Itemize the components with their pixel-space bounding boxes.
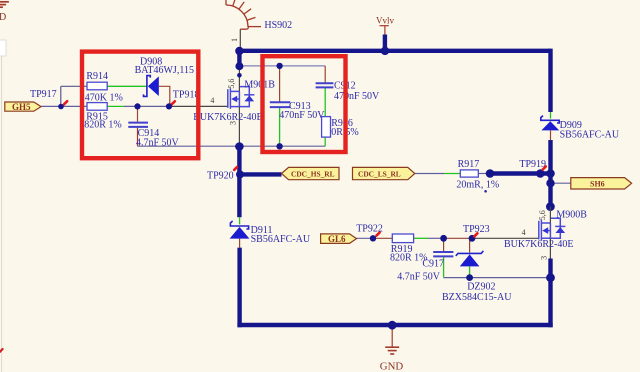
highlight box 2 [263, 56, 346, 152]
wire C917 bottom lead (green) [443, 257, 445, 278]
resistor R919 [392, 234, 413, 243]
net label GH5 [5, 102, 41, 112]
node junction C914 top [134, 103, 140, 109]
marker TP923 [474, 233, 477, 236]
svg-text:4.7nF 50V: 4.7nF 50V [397, 272, 441, 283]
net label CDC_HS_RL [282, 167, 340, 179]
wire GH5 to TP917 [41, 105, 61, 107]
capacitor C912 [316, 83, 334, 87]
svg-text:BUK7K6R2-40E: BUK7K6R2-40E [504, 239, 573, 250]
wire TP917 to R915 [61, 105, 87, 107]
svg-text:M901B: M901B [244, 80, 275, 91]
wire TP923 to gate M900B [472, 237, 539, 239]
resistor R917 [460, 170, 478, 177]
node junction SH6 [546, 179, 554, 187]
wire D911 anode lead [239, 239, 241, 248]
node junction low-side rail [546, 273, 555, 282]
wire R919 right (green) [414, 237, 428, 239]
wire D909 cathode lead (green) [550, 112, 552, 119]
svg-text:4: 4 [522, 228, 526, 237]
node junction snubber tap [235, 62, 243, 70]
svg-text:D: D [0, 12, 6, 23]
ground GND (top-left, clipped) [0, 2, 9, 7]
node junction DZ902 [466, 274, 473, 281]
wire TP919 row thick segment [490, 171, 551, 175]
highlight box 1 [82, 52, 198, 159]
svg-text:470K 1%: 470K 1% [85, 92, 123, 103]
svg-text:R914: R914 [86, 71, 108, 82]
marker TP917 [64, 101, 67, 104]
net label CDC_LS_RL [353, 167, 415, 179]
svg-text:HS902: HS902 [264, 20, 292, 31]
node junction C913 top [276, 63, 282, 69]
wire C913 top lead [279, 66, 281, 102]
wire M900B source lead [549, 238, 551, 258]
clipped red mark at left edge [0, 349, 3, 352]
wire left bus lower [237, 248, 241, 328]
resistor R915 [87, 103, 107, 111]
svg-text:TP919: TP919 [519, 159, 546, 170]
svg-text:C917: C917 [422, 259, 444, 270]
wire TP920 stub to CDC_HS_RL (thick) [239, 172, 281, 176]
wire DZ902 bottom lead (green) [469, 266, 471, 277]
node junction TP917 [58, 104, 64, 110]
node junction bus top-left [235, 47, 243, 55]
marker TP922 [377, 233, 380, 236]
wire C913 bottom lead (green) [279, 107, 281, 146]
wire TP918 to gate M901B [169, 105, 228, 107]
svg-text:TP917: TP917 [30, 89, 57, 100]
node junction C913 bottom [276, 143, 282, 149]
svg-text:TP918: TP918 [173, 90, 200, 101]
wire TP922 to R919 [373, 237, 392, 239]
wire D908 anode down to TP918 [159, 86, 170, 106]
heatsink HS902 [226, 0, 261, 29]
resistor R914 [87, 82, 107, 90]
wire M900B drain lead [549, 207, 551, 223]
wire Vvlv stub (thick) [383, 35, 387, 51]
wire HS902 pin lead [239, 29, 241, 49]
node junction C917 top [440, 235, 447, 242]
wire R915 right (green) [107, 105, 124, 107]
capacitor C917 [433, 252, 453, 256]
wire top bus Vvlv [237, 49, 550, 53]
wire TP917 to R914 [61, 85, 87, 87]
wire right bus lower [548, 259, 552, 328]
svg-text:470nF 50V: 470nF 50V [334, 91, 380, 102]
svg-text:4.7nF 50V: 4.7nF 50V [136, 137, 180, 148]
wire R916 bottom lead (green) [324, 137, 326, 146]
wire bottom rail bus to R916 [239, 145, 325, 147]
transistor M900B (NMOS) [539, 218, 566, 240]
node junction M901B drain [237, 73, 242, 78]
wire D911 cathode lead (green) [239, 217, 241, 224]
wire GND stub [391, 326, 393, 347]
wire to C917 node [428, 237, 444, 239]
diode D909 (Schottky) [541, 116, 559, 131]
svg-text:CDC_HS_RL: CDC_HS_RL [291, 169, 335, 178]
wire GL6 to TP922 [357, 237, 374, 239]
svg-text:5,6: 5,6 [538, 210, 547, 220]
net label SH6 [571, 178, 632, 189]
transistor M901B (NMOS) [228, 87, 255, 109]
wire C912 top lead [324, 66, 326, 83]
clipped white label at left edge [0, 40, 6, 56]
diode D911 (Schottky) [230, 221, 250, 239]
svg-text:DZ902: DZ902 [467, 281, 495, 292]
wire C912 to R916 (green) [324, 88, 326, 117]
wire right bus middle [548, 140, 552, 207]
svg-text:Vvlv: Vvlv [376, 15, 395, 25]
svg-text:SB56AFC-AU: SB56AFC-AU [560, 129, 620, 140]
node junction bus TP919 [546, 169, 555, 178]
diode D908 [144, 76, 159, 97]
zener diode DZ902 [456, 251, 484, 267]
wire SH6 stub [551, 182, 571, 184]
wire D909 anode lead [550, 130, 552, 140]
power Vvlv [380, 26, 389, 35]
wire R917 to junction [478, 173, 486, 175]
stray dot mark [484, 190, 487, 193]
wire R914 to D908 (green) [107, 85, 147, 87]
svg-text:R917: R917 [458, 159, 480, 170]
page border line [1, 56, 3, 372]
wire bottom rail C914 to bus [138, 145, 240, 147]
node junction TP920 [236, 170, 244, 178]
wire CDC_LS_RL to R917 [415, 173, 444, 175]
node junction GND [388, 321, 397, 330]
svg-text:GL6: GL6 [328, 234, 346, 244]
svg-text:BZX584C15-AU: BZX584C15-AU [442, 292, 512, 303]
svg-text:5,6: 5,6 [227, 79, 236, 89]
ground GND (bottom) [385, 347, 399, 354]
marker TP920 [234, 167, 237, 170]
svg-text:1: 1 [230, 38, 239, 42]
wire C917 node to TP923 [444, 237, 472, 239]
wire TP917 branch vertical [60, 86, 62, 106]
node junction Vvlv [381, 47, 389, 55]
svg-text:3: 3 [229, 121, 238, 125]
svg-text:470nF 50V: 470nF 50V [279, 110, 325, 121]
wire green into R917 [444, 173, 460, 175]
marker TP918 [172, 101, 175, 104]
svg-text:4: 4 [210, 96, 214, 105]
svg-text:CDC_LS_RL: CDC_LS_RL [358, 169, 401, 178]
wire low-side rail to bus [444, 277, 551, 279]
svg-text:BAT46WJ,115: BAT46WJ,115 [135, 65, 194, 76]
wire M901B source lead [238, 107, 240, 147]
svg-text:GND: GND [380, 360, 404, 372]
svg-text:3: 3 [539, 256, 548, 260]
svg-text:SB56AFC-AU: SB56AFC-AU [251, 234, 311, 245]
svg-text:M900B: M900B [556, 210, 587, 221]
wire left bus upper (thick) [237, 51, 241, 66]
wire DZ902 top lead [469, 238, 471, 252]
net label GL6 [321, 234, 357, 244]
capacitor C914 [128, 123, 148, 127]
wire C914 bottom lead [137, 128, 139, 146]
marker TP919 [543, 167, 546, 170]
wire snubber top rail [239, 65, 325, 67]
node junction source rail [235, 142, 244, 151]
node junction R917 out [486, 169, 495, 178]
node junction M900B drain [546, 202, 555, 211]
svg-text:GH5: GH5 [12, 102, 31, 112]
node junction TP922 [370, 235, 376, 241]
resistor R916 [322, 117, 331, 138]
wire M901B drain lead [238, 66, 240, 91]
capacitor C913 [270, 102, 290, 107]
svg-text:SH6: SH6 [590, 179, 605, 188]
svg-text:TP920: TP920 [207, 170, 234, 181]
node junction TP918 [166, 103, 172, 109]
wire bottom bus [237, 323, 552, 327]
wire C914 top lead [137, 106, 139, 121]
node junction TP919 [536, 169, 545, 178]
wire C917 top lead [443, 238, 445, 251]
node junction TP923 [469, 235, 476, 242]
wire right bus upper [548, 49, 552, 112]
wire to C914 node [124, 105, 169, 107]
svg-text:20mR, 1%: 20mR, 1% [456, 180, 499, 191]
svg-text:820R 1%: 820R 1% [84, 120, 122, 131]
wire left bus middle [237, 147, 241, 218]
